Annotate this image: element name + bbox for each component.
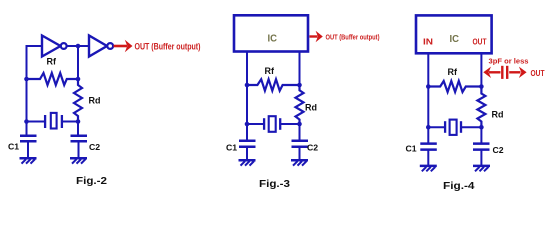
wire: Fig.3 crystal left lead bbox=[247, 123, 264, 125]
resistor Rd (Fig.2) bbox=[74, 79, 82, 122]
ground (Fig.4 C1) bbox=[420, 165, 437, 168]
crystal X1 (Fig.3) bbox=[263, 118, 265, 130]
inverter U2 buffer (Fig.2) bbox=[89, 36, 107, 57]
node: Fig.3 crystal right junction bbox=[297, 122, 302, 127]
wire: Fig.2 C1 to ground bbox=[27, 141, 29, 158]
wire: Fig.3 crystal right lead bbox=[280, 123, 299, 125]
svg-text:C2: C2 bbox=[89, 142, 100, 152]
svg-text:C1: C1 bbox=[8, 142, 19, 152]
wire: Fig.3 right leg top bbox=[299, 52, 301, 86]
crystal X1 (Fig.4) bbox=[444, 121, 446, 133]
capacitor C2 (Fig.4) bbox=[473, 142, 490, 145]
wire: Fig.2 right leg from junction down to Rf node bbox=[77, 46, 79, 79]
IC U3 (Fig.3) bbox=[234, 15, 308, 51]
ground (Fig.4 C2) bbox=[473, 165, 490, 168]
node: Fig.4 crystal right junction bbox=[479, 125, 484, 130]
node: Fig.2 Rf right junction bbox=[76, 77, 81, 82]
node: Fig.4 Rf right junction bbox=[479, 84, 484, 89]
svg-text:OUT: OUT bbox=[473, 38, 487, 47]
ground (Fig.3 C1) bbox=[239, 159, 256, 162]
inverter U1 (Fig.2) bbox=[42, 36, 61, 57]
node: Fig.3 Rf left junction bbox=[245, 83, 250, 88]
wire: Fig.2 top wire to inverter 1 input bbox=[26, 45, 43, 47]
IC U4 (Fig.4) bbox=[416, 15, 492, 53]
svg-text:IC: IC bbox=[450, 34, 460, 45]
capacitor 3pF coupling (Fig.4, red) with arrows bbox=[489, 71, 501, 73]
wire: Fig.3 output arrow (red) bbox=[310, 35, 318, 37]
capacitor C1 (Fig.3) bbox=[239, 140, 256, 143]
wire: Fig.4 crystal right lead bbox=[461, 126, 481, 128]
wire: Fig.3 left leg bbox=[246, 52, 248, 141]
capacitor C2 (Fig.3) bbox=[292, 140, 309, 143]
node: Fig.4 crystal left junction bbox=[426, 125, 431, 130]
wire: Fig.2 output arrow (red) bbox=[114, 45, 128, 48]
svg-text:IN: IN bbox=[423, 38, 433, 47]
node: Fig.2 crystal right junction bbox=[76, 119, 81, 124]
wire: Fig.2 C2 to ground bbox=[78, 141, 80, 158]
svg-text:OUT (Buffer output): OUT (Buffer output) bbox=[326, 32, 380, 41]
svg-text:IC: IC bbox=[268, 34, 278, 45]
ground (Fig.2 C2) bbox=[70, 157, 87, 160]
resistor Rd (Fig.4) bbox=[477, 87, 485, 128]
wire: Fig.2 crystal right lead bbox=[62, 121, 78, 123]
svg-text:Fig.-3: Fig.-3 bbox=[259, 178, 290, 190]
wire: Fig.2 right leg to C2 bbox=[77, 122, 79, 136]
svg-text:Rd: Rd bbox=[89, 96, 101, 106]
resistor Rd (Fig.3) bbox=[296, 85, 304, 124]
wire: Fig.3 C2 to ground bbox=[299, 147, 301, 160]
wire: Fig.2 crystal left lead bbox=[27, 121, 45, 123]
svg-text:Rf: Rf bbox=[448, 67, 458, 77]
svg-text:Rd: Rd bbox=[492, 110, 504, 120]
wire: Fig.4 right leg to C2 bbox=[480, 127, 482, 143]
capacitor C1 (Fig.4) bbox=[420, 142, 437, 145]
node: Fig.2 Rf left junction bbox=[24, 77, 29, 82]
svg-text:C2: C2 bbox=[493, 145, 504, 155]
crystal X1 (Fig.2) bbox=[44, 115, 46, 128]
node: Fig.2 junction inverter2 input / feedback bbox=[76, 44, 81, 49]
svg-text:C1: C1 bbox=[406, 144, 417, 154]
svg-text:OUT (Buffer output): OUT (Buffer output) bbox=[135, 42, 201, 52]
svg-text:Fig.-4: Fig.-4 bbox=[443, 180, 475, 192]
wire: Fig.4 C2 to ground bbox=[480, 150, 482, 166]
capacitor C1 (Fig.2) bbox=[20, 134, 37, 137]
wire: Fig.4 crystal left lead bbox=[428, 126, 445, 128]
node: Fig.3 Rf right junction bbox=[297, 83, 302, 88]
ground (Fig.2 C1) bbox=[20, 157, 37, 160]
wire: Fig.3 right leg to C2 bbox=[299, 124, 301, 141]
svg-text:OUT: OUT bbox=[531, 69, 545, 78]
resistor Rf (Fig.4) bbox=[428, 81, 481, 92]
ground (Fig.3 C2) bbox=[291, 159, 308, 162]
svg-text:C2: C2 bbox=[307, 143, 318, 153]
wire: Fig.4 right leg top bbox=[480, 53, 482, 86]
resistor Rf (Fig.2) bbox=[27, 73, 79, 85]
node: Fig.2 crystal left junction bbox=[24, 119, 29, 124]
svg-text:Rf: Rf bbox=[265, 66, 275, 76]
wire: Fig.2 between inverters bbox=[67, 45, 89, 47]
svg-text:Rf: Rf bbox=[47, 57, 57, 67]
svg-text:Rd: Rd bbox=[305, 103, 317, 113]
resistor Rf (Fig.3) bbox=[247, 79, 300, 90]
node: Fig.4 Rf left junction bbox=[426, 84, 431, 89]
wire: Fig.3 C1 to ground bbox=[246, 147, 248, 160]
wire: Fig.4 left leg bbox=[427, 53, 429, 143]
capacitor C2 (Fig.2) bbox=[71, 134, 88, 137]
svg-text:Fig.-2: Fig.-2 bbox=[76, 175, 107, 187]
svg-text:C1: C1 bbox=[226, 143, 237, 153]
wire: Fig.2 left feedback leg bbox=[26, 46, 28, 135]
svg-text:3pF or less: 3pF or less bbox=[489, 59, 529, 66]
node: Fig.3 crystal left junction bbox=[245, 122, 250, 127]
wire: Fig.4 C1 to ground bbox=[427, 150, 429, 166]
